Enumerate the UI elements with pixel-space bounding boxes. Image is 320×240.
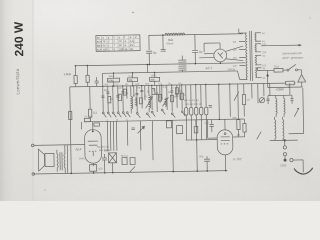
- svg-text:150: 150: [98, 167, 103, 171]
- mid verticals: [127, 85, 182, 113]
- resistor right of U152: [243, 119, 261, 140]
- svg-text:220Ω: 220Ω: [280, 163, 286, 167]
- svg-text:4V: 4V: [262, 67, 265, 70]
- output tube V1 AL4: [85, 130, 102, 164]
- speaker cone: [38, 149, 54, 171]
- speaker terminals: [31, 143, 85, 175]
- svg-text:100: 100: [135, 83, 140, 86]
- svg-text:60mA: 60mA: [166, 41, 173, 45]
- capacitor C5: [160, 35, 165, 51]
- svg-text:1,5kΩ: 1,5kΩ: [63, 72, 70, 76]
- mains switch: [287, 64, 302, 74]
- IF transformer bottom: [269, 117, 298, 146]
- wave arrow: [137, 126, 144, 133]
- right edge verticals: [270, 83, 290, 96]
- table text: [97, 36, 137, 52]
- oscillator coil 1: [131, 86, 137, 114]
- svg-text:AZ 1: AZ 1: [204, 66, 212, 70]
- mid lower verticals: [127, 120, 173, 172]
- capacitor filter 2: [192, 35, 199, 64]
- earth swoosh: [294, 168, 313, 174]
- electrolytic row: [184, 84, 218, 171]
- svg-text:50μ 2kΩ 0,1: 50μ 2kΩ 0,1: [97, 146, 110, 148]
- svg-text:20p: 20p: [137, 86, 142, 89]
- small parts under AVC: [131, 120, 198, 134]
- svg-text:2W 450 100 1k: 2W 450 100 1k: [185, 103, 202, 106]
- winding labels: [262, 32, 267, 80]
- mains line fuse: [257, 67, 287, 72]
- svg-text:8μ: 8μ: [153, 51, 157, 55]
- wire rectifier top line: [149, 34, 243, 50]
- svg-text:4V: 4V: [262, 32, 265, 35]
- voltage table: [96, 35, 140, 52]
- small box right of mid: [176, 126, 182, 134]
- stubs resistor row: [102, 64, 154, 86]
- switch contacts left: [102, 112, 126, 118]
- bus B mains: [103, 71, 238, 73]
- resistor row R1: [108, 78, 120, 82]
- extra verticals: [134, 85, 180, 104]
- bus C: [70, 83, 286, 87]
- cap 100: [207, 120, 217, 139]
- wire vertical x70: [70, 87, 72, 173]
- pickup jacks: [283, 139, 303, 173]
- resistor row R3: [150, 77, 160, 81]
- svg-text:4V: 4V: [262, 55, 265, 58]
- dial lamp arrow line: [261, 44, 302, 47]
- svg-text:AC: AC: [97, 37, 101, 40]
- verticals right of electro: [208, 84, 239, 120]
- choke Dr: [165, 33, 185, 35]
- svg-text:U 152: U 152: [233, 157, 242, 161]
- resistor R4 and capacitor C4: [86, 65, 99, 86]
- svg-text:235: 235: [103, 48, 108, 51]
- cathode components below AL4: [89, 154, 107, 173]
- switch row mid contacts: [126, 109, 185, 119]
- svg-text:50μ: 50μ: [199, 154, 204, 158]
- tiny labels band: [104, 74, 187, 122]
- svg-text:T0,8: T0,8: [274, 65, 280, 68]
- resistor row R2: [128, 78, 138, 82]
- mains plug arrow: [268, 70, 306, 89]
- caps marks mid: [135, 90, 178, 97]
- box mid left: [166, 121, 171, 128]
- svg-text:50kΩ: 50kΩ: [109, 75, 115, 78]
- coil 3: [162, 97, 168, 106]
- svg-text:10kΩ: 10kΩ: [108, 79, 114, 82]
- oscillator coil 2: [145, 85, 153, 112]
- svg-text:Spannungen bei: Spannungen bei: [282, 51, 302, 55]
- capacitor filter 1: [146, 51, 152, 64]
- potentiometer P1 0,5M: [108, 153, 116, 173]
- svg-text:220V~ gemessen: 220V~ gemessen: [281, 55, 304, 59]
- svg-text:6kΩ: 6kΩ: [168, 38, 174, 42]
- tube V2 U152: [217, 119, 245, 171]
- coil IF feed: [178, 56, 186, 72]
- svg-text:AL4: AL4: [97, 49, 102, 52]
- svg-text:5kΩ 150Ω: 5kΩ 150Ω: [99, 150, 110, 152]
- right section verticals: [236, 83, 265, 136]
- band switch verticals left: [103, 86, 123, 112]
- svg-text:10kΩ: 10kΩ: [151, 74, 157, 77]
- power transformer T1 secondary windings: [255, 33, 262, 78]
- svg-text:0,1: 0,1: [93, 111, 97, 115]
- svg-text:240 W: 240 W: [12, 21, 27, 57]
- dots ground: [93, 172, 95, 174]
- small boxes band: [108, 88, 184, 105]
- svg-text:235: 235: [119, 48, 124, 51]
- power transformer T1 core: [250, 31, 253, 81]
- pot verticals: [107, 121, 117, 151]
- svg-text:2M: 2M: [104, 89, 107, 92]
- svg-text:0,1 50k: 0,1 50k: [84, 115, 93, 118]
- resistor below +250: [286, 81, 296, 85]
- svg-text:Dr41: Dr41: [79, 156, 85, 160]
- svg-text:AL4: AL4: [74, 147, 81, 151]
- power transformer T1 primary winding: [237, 28, 248, 79]
- svg-text:1000Ω: 1000Ω: [227, 68, 235, 71]
- caps marks band left: [101, 92, 124, 98]
- svg-text:4V: 4V: [130, 44, 133, 47]
- svg-text:5k 0,1: 5k 0,1: [121, 155, 128, 158]
- switch lever bottom: [129, 166, 135, 172]
- svg-text:4V: 4V: [130, 48, 133, 51]
- output transformer T2: [57, 145, 65, 174]
- svg-text:8μ: 8μ: [199, 50, 203, 54]
- IF transformer top: [266, 88, 303, 134]
- node dots bus A: [149, 64, 151, 66]
- svg-text:AB2: AB2: [97, 45, 102, 48]
- AVC bus: [84, 119, 244, 122]
- wire vertical x76: [74, 66, 76, 76]
- svg-text:50k 4μ 0,1 2μ: 50k 4μ 0,1 2μ: [184, 99, 199, 102]
- cap 50u near ground: [204, 156, 210, 171]
- trimmer right: [259, 98, 264, 103]
- ground bus: [33, 171, 227, 174]
- svg-text:ACH: ACH: [97, 40, 103, 43]
- svg-text:Loewe/Opta: Loewe/Opta: [15, 68, 20, 94]
- svg-text:100: 100: [204, 121, 209, 125]
- svg-text:+250V: +250V: [275, 87, 284, 91]
- note text right: [281, 51, 304, 60]
- bus A: [75, 63, 245, 66]
- resistor left mid: [88, 86, 92, 121]
- small boxes near 125,158: [122, 157, 135, 164]
- rectifier tube U1 AZ1: [199, 43, 243, 64]
